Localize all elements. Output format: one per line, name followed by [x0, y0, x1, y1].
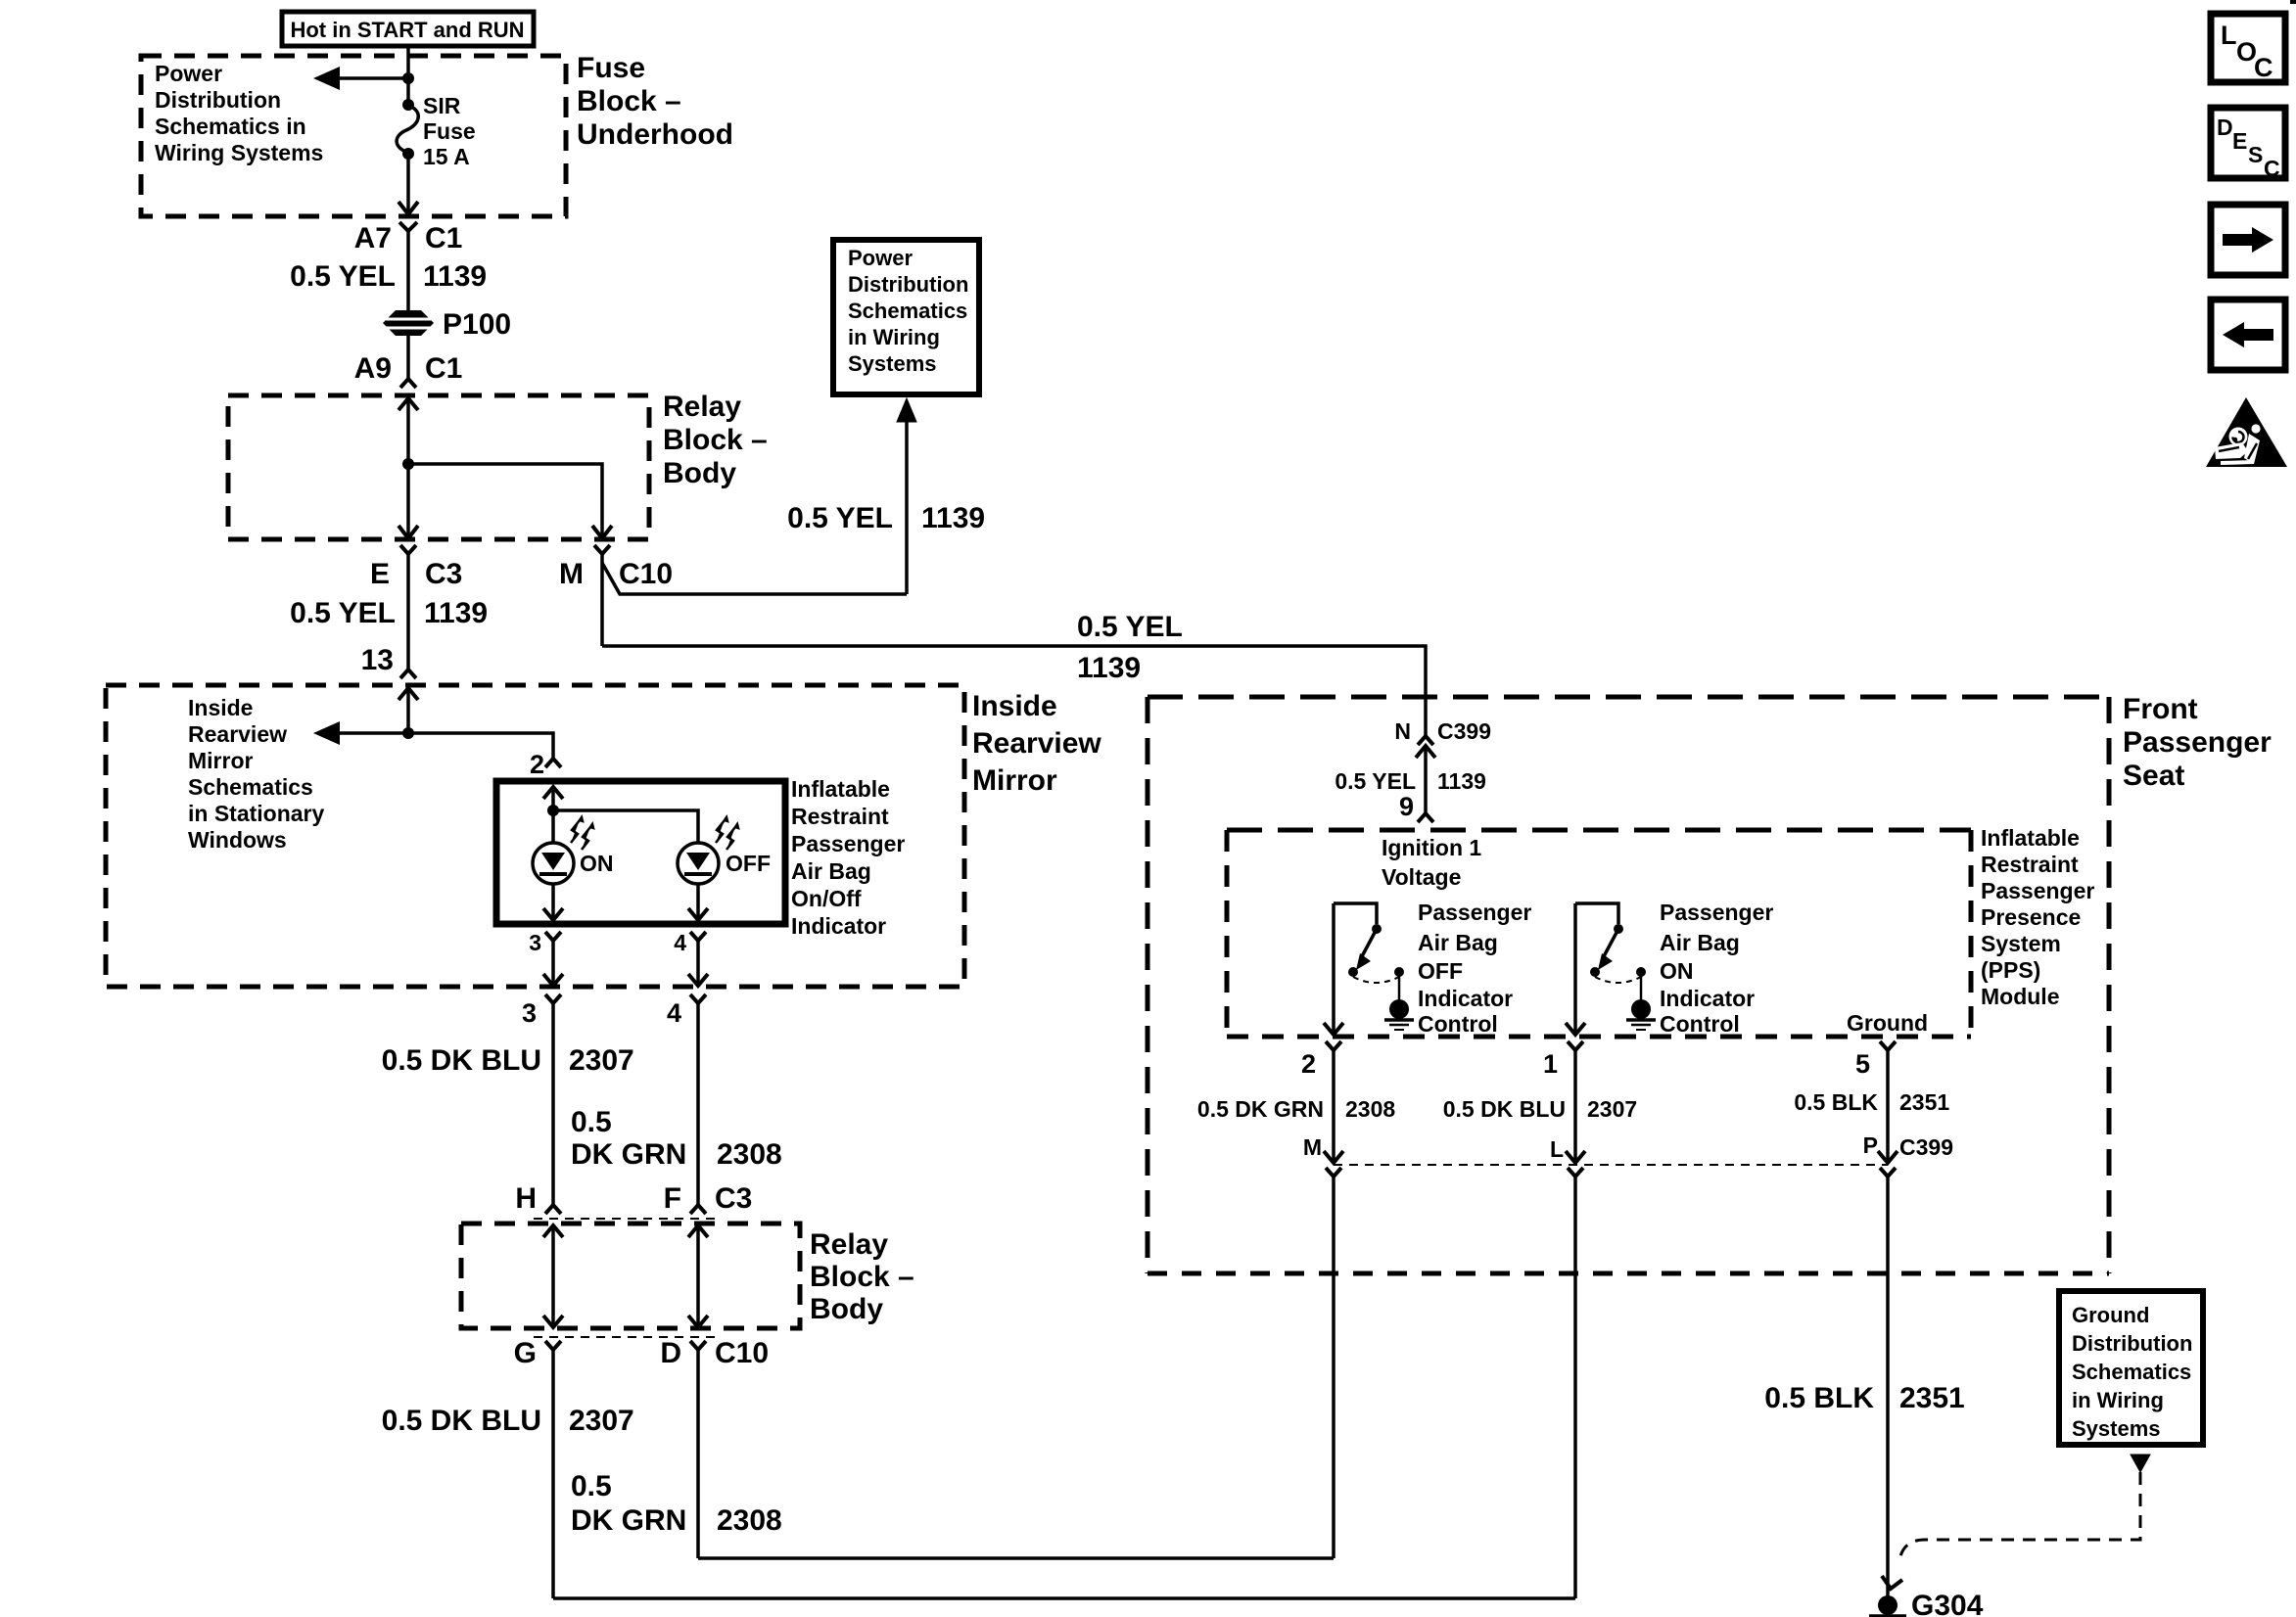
arrow 3 at mirror exit	[543, 974, 563, 986]
chevron M below C399	[1326, 1168, 1341, 1177]
chevron below indicator right	[690, 932, 706, 941]
connector arrow at fuse block exit	[398, 202, 418, 214]
arrow H entering relay 2	[543, 1225, 563, 1237]
svg-text:0.5 DK BLU: 0.5 DK BLU	[382, 1044, 541, 1077]
dashed reference path to G304	[1900, 1472, 2140, 1556]
arrow L at connector C399	[1566, 1151, 1585, 1163]
connector chevron above relay block	[400, 379, 416, 388]
splice P100	[383, 310, 434, 336]
svg-text:Air Bag: Air Bag	[1660, 930, 1740, 955]
arrow left to mirror schematics	[313, 721, 408, 745]
svg-text:Hot in START and RUN: Hot in START and RUN	[290, 18, 524, 42]
Inflatable Restraint Passenger Presence System PPS Module dashed box	[1227, 830, 1971, 1037]
svg-text:Fuse: Fuse	[577, 52, 645, 84]
icon LOC	[2211, 14, 2285, 82]
wire pin 5 down to connector P	[1886, 1050, 1890, 1163]
wire label 0.5 YEL 1139	[290, 260, 487, 293]
icon arrow left	[2211, 300, 2285, 370]
svg-text:Inside: Inside	[188, 695, 253, 720]
svg-text:Control: Control	[1660, 1011, 1740, 1037]
svg-text:13: 13	[361, 644, 394, 676]
svg-text:M: M	[559, 558, 584, 590]
arrow at M exit	[592, 526, 612, 538]
svg-text:Ground: Ground	[2072, 1303, 2149, 1327]
svg-text:2308: 2308	[1345, 1096, 1395, 1122]
svg-text:0.5 YEL: 0.5 YEL	[787, 502, 893, 534]
wire D down	[696, 1350, 700, 1558]
wire label 0.5 DK GRN 2308 small	[1197, 1096, 1395, 1122]
LED OFF light rays	[716, 817, 738, 850]
wire label 0.5 YEL / 1139 two-line	[1077, 611, 1183, 684]
svg-text:Front: Front	[2123, 693, 2198, 725]
wire DK GRN horizontal run to seat	[698, 1556, 1334, 1560]
label Passenger Air Bag ON Indicator Control	[1660, 900, 1773, 1037]
svg-text:0.5 YEL: 0.5 YEL	[1335, 768, 1416, 794]
svg-text:Mirror: Mirror	[188, 748, 254, 773]
svg-text:Systems: Systems	[848, 351, 937, 376]
chevron below PPS pin 1	[1568, 1041, 1583, 1050]
svg-text:Wiring Systems: Wiring Systems	[155, 140, 323, 165]
svg-text:C10: C10	[715, 1337, 769, 1369]
svg-text:1139: 1139	[921, 502, 985, 534]
svg-text:2307: 2307	[1587, 1096, 1637, 1122]
svg-text:Indicator: Indicator	[1418, 986, 1513, 1011]
wire down to junction	[406, 688, 410, 733]
Relay Block - Body dashed box (lower)	[461, 1224, 800, 1328]
arrow OFF exit	[688, 908, 708, 920]
svg-text:Distribution: Distribution	[848, 272, 968, 297]
svg-text:Systems: Systems	[2072, 1416, 2161, 1441]
svg-text:Restraint: Restraint	[791, 804, 889, 829]
svg-text:Voltage: Voltage	[1382, 864, 1461, 890]
wire M down to DK GRN run	[1332, 1177, 1335, 1558]
LED ON symbol	[533, 843, 574, 884]
svg-text:2308: 2308	[717, 1138, 782, 1171]
svg-text:D: D	[2217, 115, 2233, 140]
svg-text:ON: ON	[1660, 958, 1694, 984]
icon DESC	[2211, 108, 2285, 181]
svg-text:9: 9	[1399, 792, 1414, 821]
svg-text:Block –: Block –	[663, 424, 768, 456]
wire 3 to mirror box edge	[551, 941, 555, 986]
wire splice to A9	[406, 335, 410, 379]
svg-text:1: 1	[1543, 1049, 1558, 1079]
label Inside Rearview Mirror	[972, 690, 1101, 797]
note: Power Distribution Schematics in Wiring Systems	[155, 61, 323, 165]
wire up to power distribution box	[905, 411, 909, 594]
svg-text:Rearview: Rearview	[188, 721, 287, 747]
wire label 0.5 BLK 2351 small	[1794, 1089, 1949, 1115]
wire M to front passenger seat	[602, 646, 1426, 736]
wire right and down to pin 2	[408, 733, 553, 759]
arrow left to power distribution	[313, 67, 408, 90]
svg-text:0.5 BLK: 0.5 BLK	[1764, 1382, 1874, 1414]
wire pin 2 down to connector M	[1332, 1050, 1335, 1163]
svg-text:1139: 1139	[1437, 768, 1486, 794]
svg-text:0.5: 0.5	[571, 1470, 612, 1502]
LED ON light rays	[571, 817, 593, 850]
chevron below E	[400, 545, 416, 554]
svg-text:Power: Power	[848, 246, 913, 270]
wire G down	[551, 1350, 555, 1598]
chevron below PPS pin 5	[1880, 1041, 1896, 1050]
svg-text:C1: C1	[425, 352, 462, 385]
svg-text:P100: P100	[443, 308, 511, 341]
svg-text:M: M	[1303, 1134, 1322, 1160]
wire switch 1 down	[1332, 903, 1335, 1035]
Fuse Block - Underhood dashed box	[141, 56, 566, 216]
Hot in START and RUN box	[282, 12, 534, 46]
svg-text:Block –: Block –	[810, 1261, 914, 1293]
svg-text:0.5 BLK: 0.5 BLK	[1794, 1089, 1878, 1115]
connector arrow entering relay block	[398, 398, 418, 410]
chevron P below C399	[1880, 1168, 1896, 1177]
arrow P at connector C399	[1878, 1151, 1898, 1163]
arrow triangle below ground distribution box	[2131, 1455, 2150, 1472]
svg-text:Distribution: Distribution	[2072, 1331, 2192, 1356]
connector arrow entering mirror box	[398, 688, 418, 700]
label Front Passenger Seat	[2123, 693, 2272, 792]
note: Ground Distribution Schematics in Wiring Systems	[2072, 1303, 2192, 1441]
wire pin 1 down to connector L	[1573, 1050, 1577, 1163]
chevron H above relay block 2	[545, 1205, 561, 1214]
svg-text:Relay: Relay	[810, 1228, 888, 1261]
arrow pin 2 exit PPS	[1324, 1023, 1343, 1035]
Relay Block - Body dashed box (upper)	[228, 395, 649, 539]
svg-text:Restraint: Restraint	[1981, 852, 2079, 877]
note: Ignition 1 Voltage	[1382, 835, 1481, 890]
svg-text:SIR: SIR	[423, 93, 461, 118]
chevron above PPS box	[1418, 813, 1433, 822]
chevron below PPS pin 2	[1326, 1041, 1341, 1050]
svg-text:0.5: 0.5	[571, 1106, 612, 1138]
svg-text:15 A: 15 A	[423, 144, 470, 169]
label Relay Block - Body	[663, 391, 768, 489]
wire label 0.5 DK BLU 2307 lower	[382, 1405, 634, 1437]
svg-text:Ignition 1: Ignition 1	[1382, 835, 1481, 860]
junction dot	[402, 727, 414, 739]
svg-text:Block –: Block –	[577, 85, 681, 117]
chevron above indicator box	[545, 759, 561, 767]
junction dot	[402, 72, 414, 84]
svg-text:Passenger: Passenger	[1418, 900, 1531, 925]
svg-text:OFF: OFF	[1418, 958, 1463, 984]
svg-text:in Wiring: in Wiring	[2072, 1388, 2164, 1412]
arrow F entering relay 2	[688, 1225, 708, 1237]
svg-text:Presence: Presence	[1981, 904, 2081, 930]
svg-text:0.5 YEL: 0.5 YEL	[290, 260, 396, 293]
arrow ON exit	[543, 908, 563, 920]
note: Power Distribution Schematics in Wiring Systems	[848, 246, 968, 376]
svg-text:0.5 DK BLU: 0.5 DK BLU	[382, 1405, 541, 1437]
wire switch 2 down	[1573, 903, 1577, 1035]
svg-text:Module: Module	[1981, 984, 2060, 1009]
svg-text:Schematics in: Schematics in	[155, 114, 306, 139]
svg-text:C1: C1	[425, 222, 462, 254]
wire M diagonal branch	[602, 563, 907, 594]
svg-text:Body: Body	[810, 1293, 883, 1325]
wire label 0.5 DK GRN 2308 lower two-line	[571, 1470, 782, 1537]
svg-text:Schematics: Schematics	[848, 299, 967, 323]
svg-text:On/Off: On/Off	[791, 886, 862, 911]
wire 3 down to relay block 2	[551, 1003, 555, 1205]
svg-text:F: F	[664, 1182, 681, 1215]
svg-text:Distribution: Distribution	[155, 87, 281, 113]
svg-text:4: 4	[667, 998, 681, 1028]
wire fuse to box exit	[406, 154, 410, 214]
svg-text:(PPS): (PPS)	[1981, 957, 2040, 983]
ground G304	[1869, 1595, 1906, 1616]
svg-text:2307: 2307	[569, 1405, 634, 1437]
wire ON led down	[551, 884, 555, 920]
label Inflatable Restraint Passenger Air Bag On/Off Indicator	[791, 776, 905, 939]
svg-text:Passenger: Passenger	[1981, 878, 2094, 903]
wire label 0.5 BLK 2351 big	[1764, 1382, 1964, 1414]
wire branch to M pin	[408, 464, 602, 538]
chevron G below relay 2	[545, 1341, 561, 1350]
svg-text:2: 2	[530, 750, 544, 779]
Power Distribution Schematics box	[833, 240, 979, 394]
svg-text:C399: C399	[1437, 718, 1491, 744]
label Relay Block - Body lower	[810, 1228, 914, 1325]
label SIR Fuse 15 A	[423, 93, 476, 169]
chevron D below relay 2	[690, 1341, 706, 1350]
connector N C399 arrow	[1416, 746, 1435, 758]
wire label 0.5 YEL 1139 below E	[290, 597, 488, 629]
svg-text:Relay: Relay	[663, 391, 741, 423]
label Inflatable Restraint Passenger Presence System (PPS) Module	[1981, 825, 2094, 1009]
arrow into indicator box	[543, 787, 563, 799]
svg-text:C3: C3	[425, 558, 462, 590]
svg-text:Inflatable: Inflatable	[791, 776, 890, 802]
svg-text:3: 3	[529, 930, 541, 955]
arrow M at connector C399	[1324, 1151, 1343, 1163]
arrow 4 at mirror exit	[688, 974, 708, 986]
svg-text:1139: 1139	[424, 597, 488, 629]
svg-text:2: 2	[1301, 1049, 1316, 1079]
svg-text:A7: A7	[354, 222, 392, 254]
svg-text:Indicator: Indicator	[1660, 986, 1755, 1011]
svg-text:P: P	[1863, 1132, 1878, 1158]
wire from hot box down	[406, 46, 410, 105]
svg-text:Seat: Seat	[2123, 760, 2184, 792]
Ground Distribution Schematics box	[2059, 1291, 2203, 1445]
switch 2 passenger air bag ON indicator control	[1575, 903, 1656, 1030]
svg-text:0.5 YEL: 0.5 YEL	[290, 597, 396, 629]
wire through relay 2 right	[696, 1225, 700, 1327]
wire down inside relay block	[406, 398, 410, 538]
arrow G exiting relay 2	[543, 1316, 563, 1327]
Inflatable Restraint Passenger Air Bag On/Off Indicator box	[496, 781, 785, 924]
svg-text:2351: 2351	[1899, 1089, 1949, 1115]
svg-text:L: L	[1550, 1136, 1564, 1162]
chevron below M	[594, 545, 610, 554]
wire P down to G304	[1886, 1177, 1890, 1597]
svg-text:Windows: Windows	[188, 827, 287, 853]
wire 4 to mirror box edge	[696, 941, 700, 986]
wire DK BLU horizontal run to seat	[553, 1596, 1575, 1600]
svg-text:C3: C3	[715, 1182, 752, 1215]
chevron above mirror box	[400, 670, 416, 678]
Inside Rearview Mirror dashed box	[106, 685, 964, 987]
svg-text:0.5 DK BLU: 0.5 DK BLU	[1443, 1096, 1566, 1122]
wire label 0.5 DK BLU 2307 small	[1443, 1096, 1637, 1122]
wire label 0.5 YEL 1139 small	[1335, 768, 1486, 794]
svg-text:2351: 2351	[1899, 1382, 1965, 1414]
svg-text:0.5 YEL: 0.5 YEL	[1077, 611, 1183, 643]
svg-text:Schematics: Schematics	[188, 774, 313, 800]
svg-text:D: D	[660, 1337, 681, 1369]
junction dot in relay block	[402, 458, 414, 470]
connector chevron below edge	[399, 222, 417, 231]
svg-text:H: H	[515, 1182, 537, 1215]
svg-text:1139: 1139	[423, 260, 487, 293]
chevron L below C399	[1568, 1168, 1583, 1177]
svg-text:E: E	[2232, 128, 2247, 154]
label Fuse Block - Underhood	[577, 52, 733, 151]
svg-text:0.5 DK GRN: 0.5 DK GRN	[1197, 1096, 1324, 1122]
arrow at E exit	[398, 526, 418, 538]
svg-text:in Wiring: in Wiring	[848, 325, 940, 349]
svg-text:2307: 2307	[569, 1044, 634, 1077]
arrow D exiting relay 2	[688, 1316, 708, 1327]
connector C3 thin dashed line	[534, 1218, 720, 1220]
svg-text:G304: G304	[1911, 1590, 1984, 1617]
svg-text:DK GRN: DK GRN	[571, 1504, 686, 1537]
wire pin2 down inside box	[551, 787, 555, 843]
wire 4 down to relay block 2	[696, 1003, 700, 1205]
chevron below indicator left	[545, 932, 561, 941]
svg-text:Body: Body	[663, 457, 736, 489]
svg-text:System: System	[1981, 931, 2061, 956]
svg-text:N: N	[1394, 718, 1411, 744]
arrow pin 1 exit PPS	[1566, 1023, 1585, 1035]
svg-text:OFF: OFF	[726, 851, 771, 876]
svg-text:Inflatable: Inflatable	[1981, 825, 2080, 851]
junction dot inside indicator	[547, 805, 559, 816]
wire OFF led down	[696, 884, 700, 920]
svg-text:Passenger: Passenger	[1660, 900, 1773, 925]
svg-text:Passenger: Passenger	[791, 831, 905, 856]
svg-text:DK GRN: DK GRN	[571, 1138, 686, 1171]
svg-text:Fuse: Fuse	[423, 118, 476, 144]
svg-text:Power: Power	[155, 61, 222, 86]
chevron F above relay block 2	[690, 1205, 706, 1214]
label Passenger Air Bag OFF Indicator Control	[1418, 900, 1531, 1037]
svg-text:Air Bag: Air Bag	[1418, 930, 1498, 955]
Front Passenger Seat dashed box	[1148, 697, 2109, 1273]
svg-text:Mirror: Mirror	[972, 764, 1057, 797]
svg-text:Inside: Inside	[972, 690, 1057, 722]
svg-text:5: 5	[1855, 1049, 1870, 1079]
icon airbag warning triangle	[2206, 397, 2287, 467]
svg-text:G: G	[514, 1337, 537, 1369]
fuse SIR 15A	[397, 99, 418, 160]
wire label 0.5 DK BLU 2307	[382, 1044, 634, 1077]
svg-text:Ground: Ground	[1847, 1010, 1928, 1036]
svg-text:C: C	[2264, 156, 2280, 181]
svg-text:Passenger: Passenger	[2123, 726, 2272, 759]
wire to splice	[406, 231, 410, 311]
svg-text:Control: Control	[1418, 1011, 1498, 1037]
svg-text:2308: 2308	[717, 1504, 782, 1537]
svg-text:C: C	[2254, 53, 2273, 82]
svg-text:Rearview: Rearview	[972, 727, 1101, 760]
wire M down	[600, 554, 604, 646]
svg-text:E: E	[370, 558, 390, 590]
corner mark	[2290, 0, 2296, 4]
arrow into power distribution box	[897, 398, 916, 422]
svg-text:Underhood: Underhood	[577, 118, 733, 151]
wire E down to mirror box	[406, 554, 410, 669]
connector N C399 chevron	[1418, 736, 1433, 745]
svg-text:A9: A9	[354, 352, 392, 385]
icon arrow right	[2211, 205, 2285, 275]
wire label 0.5 YEL 1139 right branch	[787, 502, 985, 534]
svg-text:L: L	[2221, 21, 2237, 50]
wire through relay 2 left	[551, 1225, 555, 1327]
wire label 0.5 DK GRN 2308 two-line	[571, 1106, 782, 1171]
svg-text:S: S	[2248, 142, 2263, 167]
switch 1 passenger air bag OFF indicator control	[1334, 903, 1414, 1030]
connector C10 thin dashed line	[534, 1336, 720, 1338]
svg-text:4: 4	[674, 930, 686, 955]
svg-text:3: 3	[522, 998, 537, 1028]
svg-text:C399: C399	[1899, 1134, 1953, 1160]
wire N down to pin 9	[1424, 746, 1428, 812]
LED OFF symbol	[678, 843, 719, 884]
svg-text:Air Bag: Air Bag	[791, 858, 871, 884]
svg-text:1139: 1139	[1077, 652, 1141, 684]
wire L down to DK BLU run	[1573, 1177, 1577, 1598]
svg-text:Indicator: Indicator	[791, 913, 886, 939]
svg-text:in Stationary: in Stationary	[188, 801, 325, 826]
svg-text:C10: C10	[619, 558, 673, 590]
wire branch to OFF led	[553, 810, 698, 843]
chevron below mirror box left	[545, 994, 561, 1003]
chevron below mirror box right	[690, 994, 706, 1003]
note: Inside Rearview Mirror Schematics in Stationary Windows	[188, 695, 325, 853]
arrow at end of dashed path	[1882, 1576, 1902, 1589]
svg-text:ON: ON	[580, 851, 614, 876]
connector C399 thin dashed line	[1334, 1164, 1888, 1166]
svg-text:Schematics: Schematics	[2072, 1360, 2191, 1384]
